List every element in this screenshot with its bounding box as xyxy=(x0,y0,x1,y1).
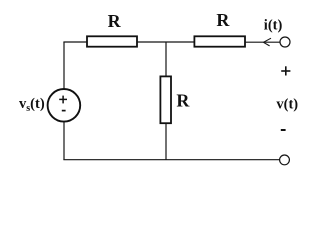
wire: R2 to output terminal with current arrow xyxy=(246,41,281,43)
svg-text:R: R xyxy=(176,90,190,110)
node: junction drop to middle resistor xyxy=(165,42,167,77)
source + polarity xyxy=(59,98,67,100)
svg-text:i(t): i(t) xyxy=(264,17,283,33)
svg-text:R: R xyxy=(108,11,122,31)
source - polarity xyxy=(62,110,66,112)
resistor R1 (top-left) xyxy=(87,36,137,46)
wire: bottom rail xyxy=(63,159,279,161)
resistor R2 (top-right) xyxy=(194,36,245,46)
wire: top segment from corner to R1 xyxy=(63,41,87,43)
svg-text:v(t): v(t) xyxy=(276,96,298,112)
wire: source bottom to bottom rail xyxy=(63,122,65,160)
current arrowhead (open, pointing left) xyxy=(263,38,271,42)
svg-text:vs(t): vs(t) xyxy=(19,96,45,114)
label + (port polarity) xyxy=(281,70,290,72)
label - (port polarity) xyxy=(281,129,286,131)
svg-text:R: R xyxy=(216,10,230,30)
wire: between R1 and R2 xyxy=(138,41,195,43)
terminal: bottom output (open circle) xyxy=(280,155,290,165)
wire: top-left vertical from corner down to source top xyxy=(63,42,65,89)
wire: R3 bottom to bottom rail xyxy=(165,124,167,160)
resistor R3 (middle vertical) xyxy=(160,76,171,123)
terminal: top output (open circle) xyxy=(280,37,290,47)
voltage source vs(t) xyxy=(48,89,81,122)
